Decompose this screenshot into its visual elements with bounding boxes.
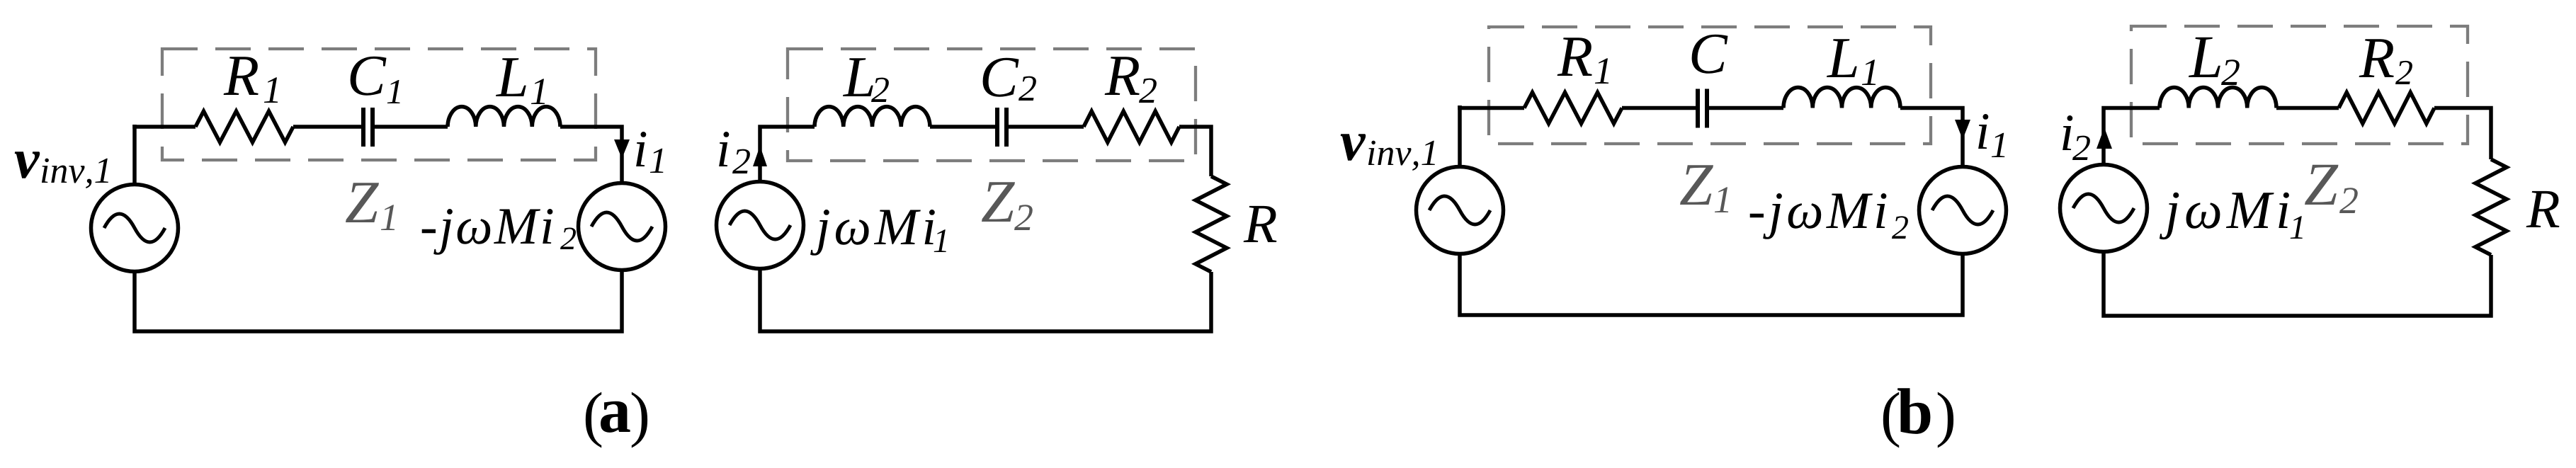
arrow i2 (a) current direction up — [753, 146, 767, 166]
label jwMi1 (b) — [2160, 193, 2289, 240]
label R2 (a) — [1105, 57, 1140, 95]
dashed box Z1 (a) — [162, 49, 596, 160]
wire C2 to R2 — [1006, 125, 1084, 129]
dependent source -jwMi2 (a) AC symbol — [579, 183, 666, 270]
dependent source -jwMi2 (b) AC symbol — [1919, 167, 2007, 254]
label -jwMi2 (b) — [1750, 193, 1887, 239]
label R1 (b) — [1557, 38, 1592, 76]
label i2 (a) — [719, 132, 729, 166]
label R load (b) — [2526, 191, 2560, 227]
dashed box Z2 (a) — [788, 49, 1196, 161]
arrow i1 (b) current direction down — [1955, 120, 1970, 139]
inductor L2 (a) — [815, 107, 930, 127]
label R load (a) — [1244, 206, 1277, 242]
label C (b) — [1692, 35, 1728, 74]
wire L2 to C2 — [930, 125, 997, 129]
label i1 (a) — [636, 132, 646, 166]
arrow i2 (b) current direction up — [2096, 127, 2112, 149]
wire L1 to right corner down (b) — [1900, 108, 1963, 167]
caption (a) — [586, 392, 601, 448]
source v_inv,1 (b) AC symbol — [1417, 167, 1504, 254]
wire below R to bottom (a) right loop — [760, 269, 1211, 331]
wire top-left corner (a) right loop — [760, 127, 815, 181]
label Z1 (a) impedance — [346, 183, 379, 222]
wire R1 to C (b) — [1622, 106, 1698, 110]
wire L1 to right corner, down to node — [560, 127, 622, 181]
resistor R1 (a) — [195, 111, 293, 142]
dependent source jwMi1 (a) AC symbol — [717, 182, 804, 269]
resistor R2 (b) — [2339, 93, 2434, 124]
label C1 (a) — [351, 57, 387, 96]
wire bottom loop (b) left — [1460, 254, 1963, 315]
capacitor C (b) — [1698, 89, 1707, 128]
label Z1 (b) impedance — [1680, 165, 1713, 205]
resistor R load (a) vertical — [1196, 176, 1227, 272]
wire left vertical top (a) — [132, 125, 137, 184]
label L1 (b) — [1827, 39, 1857, 77]
dependent source jwMi1 (b) AC symbol — [2060, 165, 2147, 252]
wire top-left segment (a) left loop — [135, 125, 195, 127]
capacitor C1 — [363, 108, 373, 147]
capacitor C2 — [997, 108, 1006, 147]
label L2 (b) — [2189, 38, 2220, 77]
caption (b) — [1883, 392, 1899, 448]
inductor L1 (b) — [1783, 87, 1900, 108]
wire R2 to right corner down (b) — [2434, 108, 2491, 160]
label -jwMi2 (a) — [422, 209, 553, 255]
label i1 (b) — [1978, 114, 1988, 149]
label L2 (a) — [843, 58, 873, 96]
wire top-left corner (b) right loop — [2104, 108, 2160, 165]
label C2 (a) — [983, 58, 1019, 97]
dashed box Z2 (b) — [2131, 26, 2468, 144]
source v_inv,1 (a) AC symbol — [91, 185, 178, 272]
label R1 (a) — [224, 57, 259, 95]
wire L2 to R2 (b) — [2276, 106, 2339, 110]
wire C1 to L1 — [373, 125, 448, 129]
label v_inv,1 (a) — [15, 152, 40, 178]
wire left vertical bottom + bottom wire + right vertical bottom (a) left loop — [135, 270, 622, 331]
wire R1 to C1 — [293, 125, 363, 129]
label Z2 (b) impedance — [2305, 165, 2339, 205]
arrow i1 (a) current direction down — [614, 139, 630, 159]
label L1 (a) — [496, 58, 526, 96]
resistor R load (b) vertical — [2475, 159, 2507, 255]
inductor L1 — [448, 107, 560, 127]
label i2 (b) — [2062, 115, 2072, 150]
label R2 (b) — [2359, 39, 2394, 77]
wire top-left segment (b) left loop — [1460, 105, 1524, 108]
label jwMi1 (a) — [810, 210, 935, 256]
wire R2 to right corner down — [1179, 127, 1211, 176]
label v_inv,1 (b) — [1341, 134, 1366, 161]
resistor R1 (b) — [1524, 93, 1622, 124]
wire below R to bottom (b) right loop — [2104, 252, 2491, 316]
wire C to L1 (b) — [1707, 106, 1783, 110]
inductor L2 (b) — [2160, 87, 2276, 108]
label Z2 (a) impedance — [982, 182, 1015, 222]
resistor R2 (a) — [1084, 111, 1179, 142]
wire left vertical (b) — [1458, 105, 1462, 166]
dashed box Z1 (b) — [1489, 27, 1931, 144]
